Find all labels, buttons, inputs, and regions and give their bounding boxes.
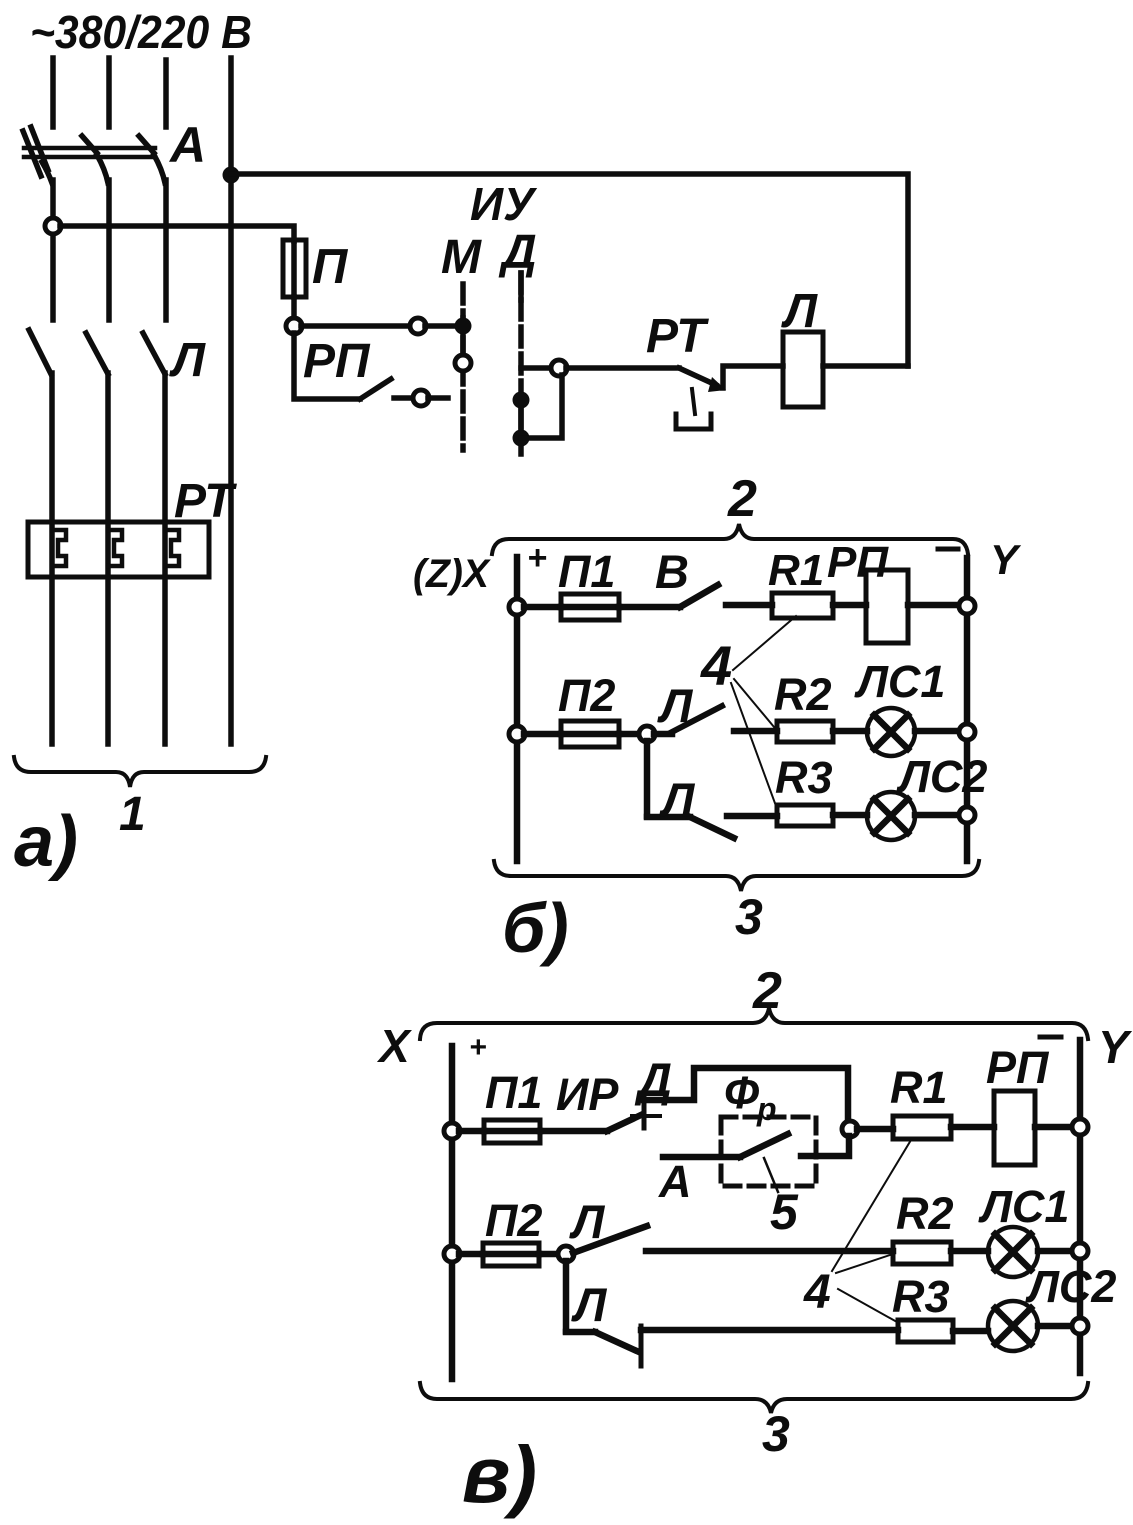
callout line 4 to R3 (b) [731, 683, 776, 806]
node Y row1 (b) [959, 598, 975, 614]
right rail Y (b) [964, 558, 971, 861]
coil RP (b) [866, 570, 908, 643]
wire phase L2 mid [106, 180, 112, 320]
node X row2 (v) [444, 1246, 460, 1262]
heater element pole2 [108, 530, 122, 566]
svg-text:П: П [312, 240, 349, 294]
fuse P2 (v) [483, 1243, 539, 1266]
wire FR box to node [801, 1136, 849, 1156]
svg-text:5: 5 [770, 1184, 799, 1240]
manual reset symbol [692, 389, 695, 414]
callout line 4 to R1 (b) [733, 616, 796, 670]
wire contact to R3 (b) [727, 813, 777, 820]
callout line 4 to R1 (v) [832, 1140, 911, 1271]
svg-text:ИУ: ИУ [470, 178, 538, 230]
contact bar row3 (v) [639, 1326, 644, 1366]
wire R3 to lamp LS2 (v) [953, 1328, 988, 1335]
wire lamp to rail (b) [915, 812, 960, 819]
svg-text:3: 3 [762, 1406, 790, 1462]
svg-text:R2: R2 [774, 669, 832, 720]
resistor R2 (b) [777, 721, 833, 742]
contact L pole2 [86, 333, 108, 374]
callout line 5 [764, 1158, 778, 1192]
brace 2 top (b) [492, 524, 968, 554]
svg-text:а): а) [14, 802, 78, 882]
node circle on M [455, 355, 471, 371]
wire phase L1 top [50, 58, 56, 127]
svg-text:3: 3 [735, 889, 763, 945]
svg-text:П1: П1 [558, 546, 615, 597]
node Y row1 (v) [1072, 1119, 1088, 1135]
wire fuse to node (b) [619, 731, 640, 738]
node X row1 (b) [509, 599, 525, 615]
wire to contact row3 (b) [647, 814, 690, 821]
svg-text:ЛС1: ЛС1 [978, 1181, 1069, 1232]
wire coil to right bus [823, 363, 908, 369]
svg-text:Ф: Ф [724, 1067, 759, 1118]
thermal relay RT heaters box [28, 522, 209, 577]
wire to fuse P2 (v) [459, 1251, 483, 1258]
svg-text:R3: R3 [775, 752, 833, 803]
wire to M junction [425, 323, 458, 329]
svg-text:Л: Л [781, 285, 818, 338]
svg-text:Л: Л [169, 334, 206, 387]
wire contact to R2 (b) [734, 728, 777, 735]
wire coil to rail (b) [908, 602, 960, 609]
wire phase L1 mid [50, 180, 56, 320]
left rail X (b) [514, 557, 521, 861]
svg-text:Y: Y [1098, 1021, 1133, 1073]
wire R2 to lamp LS1 (b) [833, 728, 867, 735]
dashed line M [460, 284, 466, 450]
svg-text:X: X [376, 1020, 412, 1072]
svg-text:П2: П2 [485, 1195, 542, 1246]
svg-text:б): б) [502, 889, 569, 967]
svg-text:R1: R1 [768, 546, 824, 595]
wire contact to R2 (v) [646, 1248, 893, 1255]
wire node to R1 (v) [857, 1126, 893, 1133]
node Y row2 (b) [959, 724, 975, 740]
svg-text:~380/220 В: ~380/220 В [30, 6, 252, 58]
resistor R1 (v) [893, 1116, 951, 1139]
left rail X (v) [449, 1046, 456, 1379]
svg-text:Л: Л [657, 679, 694, 732]
brace 2 top (v) [420, 1008, 1088, 1039]
svg-text:ИР: ИР [556, 1069, 619, 1120]
svg-text:РТ: РТ [174, 475, 237, 528]
coil RP (v) [994, 1091, 1035, 1165]
wire to fuse P2 (b) [524, 731, 561, 738]
wire R2 to lamp LS1 (v) [951, 1248, 988, 1255]
fuse P1 (v) [484, 1120, 540, 1143]
contact L pole1 [29, 330, 51, 374]
contact L row3 (v) [595, 1332, 639, 1352]
brace group 1 [14, 757, 266, 787]
svg-text:Л: Л [659, 773, 696, 826]
wire lamp to rail (v) [1038, 1248, 1073, 1255]
wire phase L1 lower [49, 373, 55, 744]
label minus (v) [1040, 1035, 1061, 1040]
wire bypass over FR [644, 1068, 848, 1123]
svg-text:П2: П2 [558, 670, 615, 721]
wire A contact lead [663, 1154, 740, 1161]
wire fuse to node (v) [539, 1251, 559, 1258]
contact L row2 (b) [654, 731, 672, 738]
contact IR [607, 1115, 641, 1131]
wire R1 to coil RP (v) [951, 1124, 994, 1131]
node branch (b) [639, 726, 655, 742]
fuse P [283, 240, 306, 297]
wire fuse to contact IR [540, 1128, 607, 1135]
label minus (b) [938, 547, 958, 552]
wire to contact row3 (v) [566, 1329, 595, 1336]
wire control tap [60, 226, 294, 241]
junction dot on M [455, 318, 472, 335]
node circle [551, 360, 567, 376]
svg-text:R3: R3 [892, 1271, 950, 1322]
resistor R3 (b) [777, 805, 833, 826]
contact D bar [642, 1093, 647, 1128]
node branch (v) [558, 1246, 574, 1262]
resistor R3 (v) [898, 1320, 953, 1342]
svg-text:р: р [756, 1091, 777, 1127]
wire neutral N [228, 58, 234, 744]
dashed line D [518, 273, 524, 458]
contact RP (normally open) [360, 379, 391, 399]
node circle on wire [410, 318, 426, 334]
coil L (contactor) [783, 332, 823, 407]
svg-text:В: В [655, 545, 689, 598]
junction node on neutral [223, 167, 240, 184]
wire R1 to coil RP (b) [833, 602, 866, 609]
heater element pole3 [165, 530, 179, 566]
wire D to RT contact [521, 365, 552, 371]
svg-text:в): в) [462, 1430, 537, 1519]
wire R3 to lamp LS2 (b) [833, 812, 867, 819]
fuse P1 (b) [561, 594, 619, 620]
node X row2 (b) [509, 726, 525, 742]
wire phase L3 top [163, 60, 169, 127]
contact RT (thermal, NC with manual reset) [679, 368, 716, 385]
wire contact to R3 (v) [641, 1327, 898, 1334]
contact L pole3 [143, 333, 165, 374]
callout line 4 to R3 (v) [838, 1289, 897, 1322]
svg-text:ЛС2: ЛС2 [1025, 1261, 1116, 1312]
wire phase L3 lower [162, 373, 168, 744]
wire switch to R1 (b) [726, 602, 772, 609]
svg-text:А: А [658, 1156, 692, 1207]
wire branch down (v) [563, 1261, 570, 1331]
node Y row3 (v) [1072, 1318, 1088, 1334]
right rail Y (v) [1077, 1040, 1084, 1373]
wire to fuse P1 (v) [459, 1128, 484, 1135]
resistor R1 (b) [772, 593, 833, 618]
junction dot on D lower [513, 430, 530, 447]
lamp LS2 (v) [988, 1301, 1038, 1351]
junction dot on D upper [513, 392, 530, 409]
wire branch down (b) [644, 741, 651, 816]
wire fuse to node [291, 297, 297, 319]
svg-text:+: + [469, 1031, 487, 1064]
svg-text:1: 1 [119, 788, 146, 841]
wire phase L2 lower [105, 373, 111, 744]
svg-text:П1: П1 [485, 1067, 542, 1118]
wire lamp to rail (b) [915, 728, 960, 735]
svg-text:R1: R1 [890, 1062, 948, 1113]
svg-text:РП: РП [827, 538, 889, 587]
lamp LS1 (v) [988, 1227, 1038, 1277]
contact L row2 (v) [573, 1226, 647, 1253]
svg-text:+: + [527, 539, 547, 577]
node Y row3 (b) [959, 807, 975, 823]
photo relay FR dashed box [721, 1117, 816, 1186]
resistor R2 (v) [893, 1242, 951, 1264]
contact L row3 (b) [690, 817, 734, 838]
wire phase L3 mid [163, 180, 169, 320]
switch A (3-pole breaker) [23, 127, 165, 183]
contact A (inside FR) [740, 1134, 788, 1157]
svg-text:РП: РП [303, 335, 371, 388]
wire node to M line [301, 323, 411, 329]
svg-text:РП: РП [986, 1042, 1050, 1093]
callout line 4 to R2 (b) [734, 679, 774, 727]
svg-text:Д: Д [498, 226, 537, 279]
wire to RP contact [294, 333, 360, 399]
node tap on L1 [45, 218, 61, 234]
svg-text:2: 2 [727, 470, 757, 528]
wire coil to rail (v) [1035, 1124, 1073, 1131]
wire loop D lower [521, 375, 562, 438]
wire fuse to switch B [619, 604, 680, 611]
svg-text:ЛС1: ЛС1 [854, 656, 945, 707]
svg-text:R2: R2 [896, 1188, 954, 1239]
svg-text:Л: Л [569, 1195, 606, 1248]
wire phase L2 top [106, 58, 112, 127]
svg-text:РТ: РТ [646, 310, 709, 363]
node before R1 (v) [842, 1121, 858, 1137]
contact B (switch) [680, 585, 718, 607]
node X row1 (v) [444, 1123, 460, 1139]
node below fuse [286, 318, 302, 334]
heater element pole1 [52, 530, 66, 566]
lamp LS2 (b) [867, 792, 915, 840]
svg-text:4: 4 [803, 1266, 831, 1319]
node Y row2 (v) [1072, 1243, 1088, 1259]
svg-text:А: А [168, 117, 206, 173]
callout line 4 to R2 (v) [836, 1255, 890, 1273]
brace 3 bottom (v) [420, 1383, 1088, 1413]
wire lamp to rail (v) [1038, 1323, 1073, 1330]
fuse P2 (b) [561, 721, 619, 747]
svg-text:М: М [441, 231, 482, 284]
svg-text:ЛС2: ЛС2 [896, 751, 987, 802]
svg-text:Л: Л [571, 1278, 608, 1331]
svg-text:Y: Y [990, 536, 1022, 583]
svg-text:(Z)X: (Z)X [413, 552, 491, 596]
wire top bus to coil return [231, 174, 908, 366]
wire to fuse P1 (b) [524, 604, 561, 611]
lamp LS1 (b) [867, 708, 915, 756]
brace 3 bottom (b) [494, 861, 979, 891]
svg-text:4: 4 [700, 634, 732, 697]
